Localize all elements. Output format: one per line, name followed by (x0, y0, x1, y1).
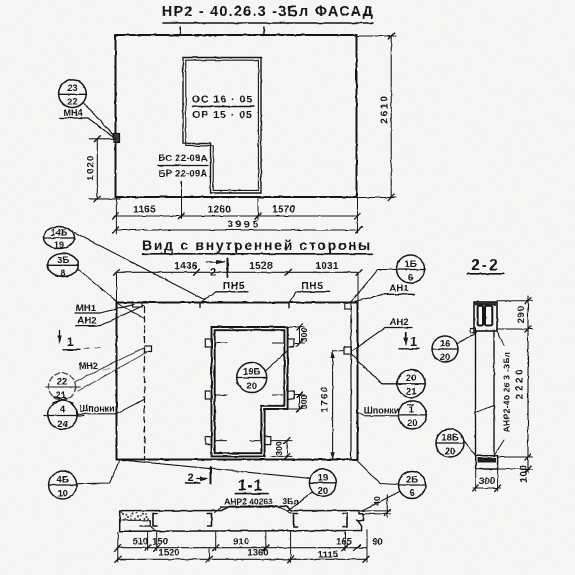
panel inner edge line right (350, 309, 352, 460)
svg-text:165: 165 (336, 537, 353, 548)
rebar bracket 3 (294, 514, 298, 528)
facade window opening (inner contour) (186, 60, 259, 190)
balloon 20/21 (397, 370, 425, 398)
leader 2Б/6 from panel corner (358, 461, 399, 485)
svg-text:510: 510 (133, 537, 149, 548)
title 2-2 (471, 257, 499, 274)
dimension 300 (bottom of opening) (271, 440, 292, 442)
left block notch (140, 520, 150, 526)
key tab left 2 (205, 391, 211, 399)
svg-text:6: 6 (409, 488, 414, 499)
label БС 22-09А / БР 22-09А (158, 153, 207, 180)
svg-text:18Б: 18Б (441, 433, 459, 444)
svg-text:300: 300 (299, 395, 309, 409)
label АН1 (389, 283, 409, 294)
svg-text:22: 22 (57, 377, 68, 388)
svg-text:БР 22-09А: БР 22-09А (159, 169, 208, 180)
dimension 300 (middle right of opening) (294, 394, 305, 396)
svg-text:6: 6 (408, 273, 413, 284)
leader 14Б/19 (75, 233, 206, 301)
leader 18Б/20 (464, 440, 477, 456)
svg-text:1: 1 (410, 334, 417, 349)
tick on facade top edge (right) (263, 27, 265, 36)
top-right corner tab (345, 303, 352, 310)
svg-text:1115: 1115 (318, 550, 339, 561)
leaders from 22/21 to left tab (76, 348, 144, 382)
svg-text:19: 19 (54, 240, 64, 250)
title Вид с внутренней стороны (142, 237, 372, 253)
dimension 1760 (333, 350, 344, 352)
svg-text:2610: 2610 (380, 94, 391, 123)
svg-text:22: 22 (67, 97, 78, 108)
svg-text:1260: 1260 (208, 205, 232, 216)
section mark 1 (left) (59, 331, 61, 343)
svg-text:2: 2 (188, 472, 194, 484)
balloon 4Б/10 (49, 471, 77, 499)
dimension row 1165 / 1260 / 1570 (116, 215, 358, 217)
top-left corner tab (133, 303, 143, 308)
svg-text:1031: 1031 (315, 261, 339, 272)
svg-text:20: 20 (406, 373, 417, 384)
svg-text:ПН5: ПН5 (223, 281, 245, 292)
extension lines above panel (116, 272, 118, 303)
dimension row 1520/1360/1115 (118, 558, 366, 560)
title2 underline (143, 253, 372, 255)
svg-text:14Б: 14Б (51, 228, 68, 238)
svg-text:МН4: МН4 (63, 108, 82, 118)
section mark 2 (bottom) (188, 472, 194, 484)
balloon 14Б/19 (44, 227, 75, 249)
leader 19Б/20 (265, 352, 287, 372)
section mark 2 (top) (207, 261, 225, 263)
svg-text:1-1: 1-1 (238, 478, 263, 495)
label АН2 (right) (389, 317, 408, 328)
svg-text:2Б: 2Б (406, 475, 418, 486)
leader 16/20 (458, 334, 476, 344)
svg-text:4Б: 4Б (57, 475, 69, 486)
svg-text:20: 20 (318, 486, 329, 497)
svg-text:1: 1 (409, 405, 415, 416)
inner panel outline (117, 303, 358, 460)
svg-text:20: 20 (440, 352, 451, 363)
key tab left 1 (205, 339, 211, 347)
svg-text:19: 19 (318, 473, 329, 484)
facade window opening (outer contour) (183, 58, 261, 194)
panel inner edge line left (dashed) (144, 307, 146, 460)
balloon 16/20 (432, 336, 458, 362)
key tab step (265, 437, 271, 445)
label ПН5 (right) (301, 281, 323, 292)
svg-text:1360: 1360 (247, 548, 268, 559)
svg-text:АНР2-40 26 3 -3Бл: АНР2-40 26 3 -3Бл (502, 352, 512, 432)
label АНР2 40263 3Бл (224, 497, 298, 507)
svg-text:21: 21 (406, 387, 417, 398)
svg-text:ОР 15 · 05: ОР 15 · 05 (192, 109, 253, 121)
balloon 18Б/20 (436, 429, 464, 457)
label АНР2-40.26.3-3Бл (vertical) (502, 352, 512, 432)
rebar bracket 4 (343, 514, 347, 528)
inner opening (outer contour) (212, 327, 288, 456)
svg-text:20: 20 (407, 418, 418, 429)
balloon 1Б/6 (397, 255, 425, 283)
facade panel outline (116, 35, 357, 197)
tab centerlines (216, 342, 228, 344)
tick on facade top edge (left) (179, 27, 181, 36)
extension lines under facade (115, 197, 117, 234)
svg-text:19Б: 19Б (243, 367, 261, 378)
svg-text:ОС 16 · 05: ОС 16 · 05 (192, 94, 253, 106)
svg-text:АН1: АН1 (389, 283, 409, 294)
svg-text:300: 300 (274, 441, 284, 455)
leader МН4 to mark (88, 118, 114, 138)
anchor loop 2 (485, 306, 492, 326)
balloon 1/20 (шпонки) (398, 401, 426, 429)
key tab right 1 (288, 339, 294, 347)
break line (476, 406, 495, 413)
svg-text:910: 910 (233, 537, 249, 548)
rebar bracket 2 (208, 514, 212, 527)
svg-text:2220: 2220 (515, 367, 526, 400)
balloon 19Б/20 (237, 363, 267, 393)
mark МН4 on left edge (114, 134, 120, 143)
label Шпонки (left) (79, 404, 114, 414)
cross marks above balloon (52, 397, 72, 404)
anchor tab left (145, 346, 152, 352)
dimension 2610 (right) (357, 35, 396, 37)
balloon 4/24 (48, 401, 77, 430)
corner diagonal top-left (117, 303, 145, 319)
section mark 1 (right) (405, 333, 407, 345)
dimension row 1436 / 1528 / 1031 (117, 271, 360, 273)
svg-text:1020: 1020 (85, 155, 96, 181)
label ОС 16-05 / ОР 15-05 (192, 94, 253, 122)
right dimension chain 290/2220/100 (497, 300, 533, 302)
anchor loop 1 (478, 306, 483, 326)
dimension 1020 (left) (89, 138, 116, 140)
stipple in left block (121, 512, 150, 521)
svg-text:90: 90 (372, 537, 383, 548)
svg-text:8: 8 (60, 268, 65, 278)
svg-text:АН2: АН2 (389, 317, 408, 328)
label Шпонки (right) (364, 406, 399, 416)
balloon 23/22 (59, 80, 87, 108)
svg-text:2: 2 (210, 267, 216, 279)
svg-text:300: 300 (479, 476, 495, 487)
leader from balloon to mark (84, 104, 114, 136)
svg-text:3Б: 3Б (57, 255, 69, 265)
leader 1Б/6 (351, 270, 397, 303)
key tab right 2 (288, 391, 294, 399)
balloon 3Б/8 (48, 254, 79, 277)
left block inner line (120, 519, 151, 521)
dimension row 510/150/910/165/90 (118, 547, 367, 549)
dimension 40 (right end) (359, 510, 391, 512)
body of section 2-2 (475, 331, 477, 456)
balloon 19/20 (309, 469, 336, 496)
dimension 300 (bottom of 2-2) (475, 470, 477, 491)
leader 19/20 to section (288, 492, 312, 511)
svg-text:ПН5: ПН5 (301, 281, 323, 292)
svg-text:АН2: АН2 (77, 316, 96, 327)
faded balloon 22/21 (49, 373, 76, 400)
svg-text:1570: 1570 (272, 205, 296, 216)
bottom block (476, 456, 498, 469)
svg-text:24: 24 (57, 419, 68, 430)
label МН4 (63, 108, 82, 118)
svg-text:10: 10 (57, 489, 68, 500)
extension lines below section (117, 532, 119, 562)
svg-text:1165: 1165 (133, 205, 156, 216)
top block (474, 302, 497, 331)
svg-text:1: 1 (67, 334, 74, 349)
svg-text:3995: 3995 (227, 219, 261, 231)
leader 20/21 to АН2 tab (352, 355, 383, 384)
leader 2Б/6 to section end (363, 491, 400, 510)
anchor tab АН2 right (344, 347, 351, 355)
svg-text:300: 300 (299, 328, 309, 342)
balloon 2Б/6 (399, 472, 426, 499)
svg-text:150: 150 (152, 537, 168, 548)
svg-text:1528: 1528 (249, 261, 273, 272)
title underline (163, 22, 373, 24)
long leader panel corner to balloon 19/20 (120, 460, 310, 479)
svg-text:1760: 1760 (320, 385, 331, 413)
svg-text:100: 100 (519, 464, 530, 482)
svg-text:МН2: МН2 (79, 361, 98, 371)
svg-text:20: 20 (445, 446, 456, 457)
inner opening (inner contour) (215, 330, 285, 453)
svg-text:БС 22-09А: БС 22-09А (158, 153, 207, 164)
svg-text:40: 40 (372, 496, 382, 506)
label ПН5 (left) (223, 281, 245, 292)
dimension row 3995 (116, 229, 359, 231)
leader 3Б/8 (78, 269, 118, 303)
svg-text:1Б: 1Б (404, 259, 416, 270)
svg-text:Вид с внутренней стороны: Вид с внутренней стороны (142, 237, 372, 253)
svg-text:АНР2 40263: АНР2 40263 (224, 497, 273, 507)
svg-text:Шпонки: Шпонки (79, 404, 114, 414)
dimension 300 (top right of opening) (288, 326, 305, 328)
key tab left 3 (205, 437, 211, 445)
svg-text:290: 290 (516, 306, 527, 324)
title 1-1 (238, 478, 263, 495)
svg-text:1520: 1520 (158, 548, 179, 559)
svg-text:23: 23 (67, 83, 78, 94)
svg-text:Шпонки: Шпонки (364, 406, 399, 416)
svg-text:16: 16 (440, 339, 451, 350)
leader 4Б/10 to panel corner (77, 460, 119, 484)
label МН1 (76, 303, 97, 314)
svg-text:1436: 1436 (174, 261, 198, 272)
svg-text:4: 4 (60, 405, 66, 416)
rebar bracket 1 (153, 514, 157, 527)
svg-text:2-2: 2-2 (471, 257, 499, 274)
label АН2 (left) (77, 316, 96, 327)
svg-text:20: 20 (246, 381, 257, 392)
svg-text:НР2 - 40.26.3 -3Бл ФАСАД: НР2 - 40.26.3 -3Бл ФАСАД (162, 4, 374, 20)
faded label МН2 (79, 361, 98, 371)
title НР2-40.26.3 -3Бл ФАСАД (162, 4, 374, 20)
step at block-body joint (471, 328, 476, 333)
section 1-1 profile (120, 506, 363, 531)
